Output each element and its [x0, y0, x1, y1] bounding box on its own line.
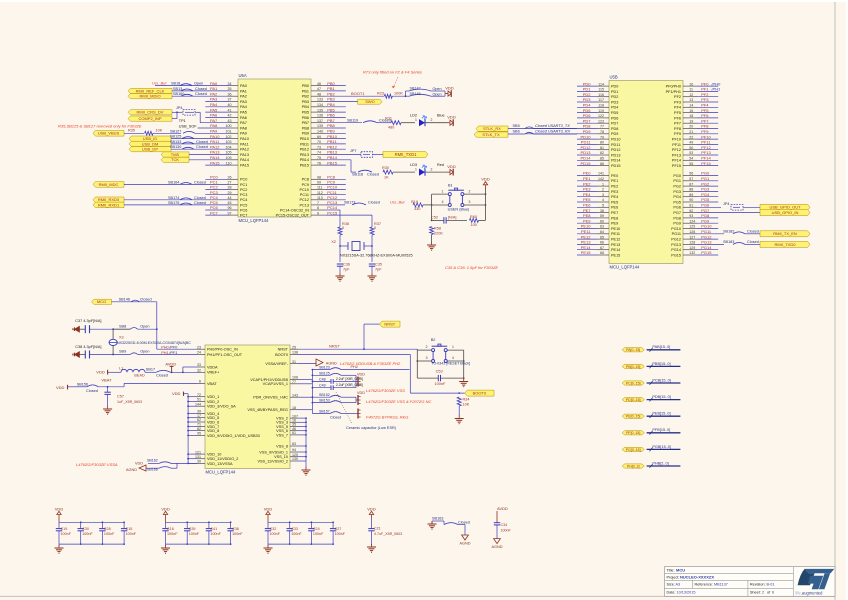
svg-text:USER (Blue): USER (Blue) — [448, 207, 470, 211]
svg-text:65: 65 — [600, 235, 604, 239]
svg-text:100nF: 100nF — [167, 532, 178, 536]
svg-text:VDD: VDD — [481, 177, 490, 182]
svg-text:82: 82 — [197, 427, 201, 431]
svg-text:VBAT: VBAT — [207, 382, 217, 386]
svg-text:88: 88 — [689, 188, 693, 192]
svg-text:15: 15 — [689, 109, 693, 113]
svg-text:18: 18 — [292, 406, 296, 410]
svg-text:PB8: PB8 — [302, 126, 309, 130]
svg-text:L476ZG VDDUSB & F303ZE PH2: L476ZG VDDUSB & F303ZE PH2 — [340, 361, 401, 366]
svg-text:SWO: SWO — [365, 99, 375, 104]
svg-text:109: 109 — [226, 156, 232, 160]
svg-text:PG1: PG1 — [673, 179, 681, 183]
svg-text:131: 131 — [195, 455, 201, 459]
svg-text:VDD: VDD — [96, 370, 105, 375]
svg-text:Date:: Date: — [667, 591, 676, 595]
svg-text:68: 68 — [600, 251, 604, 255]
svg-text:119: 119 — [598, 109, 604, 113]
svg-text:PG15: PG15 — [701, 250, 712, 255]
svg-text:81: 81 — [600, 146, 604, 150]
svg-text:141: 141 — [598, 172, 604, 176]
svg-text:VSS_4B/BYPASS_REG: VSS_4B/BYPASS_REG — [247, 408, 288, 412]
svg-text:85: 85 — [600, 157, 604, 161]
svg-text:1: 1 — [415, 118, 417, 122]
svg-text:PC2: PC2 — [240, 188, 247, 192]
svg-text:100nF: 100nF — [313, 532, 324, 536]
svg-text:124: 124 — [689, 219, 695, 223]
svg-text:SB175: SB175 — [168, 201, 179, 205]
svg-text:PF11: PF11 — [672, 143, 681, 147]
svg-text:3: 3 — [426, 356, 428, 360]
svg-text:PC11: PC11 — [300, 193, 309, 197]
svg-text:BOOT1: BOOT1 — [351, 91, 365, 96]
svg-text:PA10: PA10 — [210, 134, 220, 139]
svg-text:PG8: PG8 — [673, 216, 681, 220]
svg-text:PF[0..15]: PF[0..15] — [626, 431, 640, 435]
svg-text:PF15: PF15 — [672, 164, 681, 168]
svg-text:C38: C38 — [232, 527, 239, 531]
svg-text:PE5: PE5 — [583, 197, 591, 202]
svg-text:PF14: PF14 — [672, 159, 681, 163]
svg-text:PG4: PG4 — [701, 192, 710, 197]
svg-text:49: 49 — [689, 141, 693, 145]
svg-text:78: 78 — [600, 130, 604, 134]
svg-text:54: 54 — [689, 157, 693, 161]
svg-text:138: 138 — [292, 351, 298, 355]
svg-text:PG8: PG8 — [701, 213, 710, 218]
svg-text:100nF: 100nF — [335, 532, 346, 536]
svg-text:STLK_TX: STLK_TX — [482, 132, 500, 137]
svg-text:50: 50 — [689, 146, 693, 150]
svg-text:80: 80 — [600, 141, 604, 145]
svg-text:79: 79 — [600, 135, 604, 139]
svg-text:PB2: PB2 — [302, 95, 309, 99]
svg-text:SB182: SB182 — [723, 229, 734, 233]
svg-text:135: 135 — [317, 108, 323, 112]
svg-text:B2: B2 — [431, 338, 436, 342]
svg-text:Open: Open — [433, 87, 442, 91]
svg-text:111: 111 — [317, 186, 322, 190]
svg-text:PG5: PG5 — [701, 197, 710, 202]
svg-text:PG10: PG10 — [671, 227, 681, 231]
svg-text:PB0: PB0 — [327, 81, 335, 86]
svg-text:PC9: PC9 — [302, 183, 309, 187]
svg-text:64: 64 — [600, 230, 604, 234]
svg-text:PA11: PA11 — [210, 139, 220, 144]
svg-text:93: 93 — [689, 214, 693, 218]
svg-text:PB4: PB4 — [302, 105, 309, 109]
svg-text:VSS_9/VSSIO_1: VSS_9/VSSIO_1 — [259, 450, 288, 454]
svg-text:Usr_But: Usr_But — [152, 81, 167, 86]
svg-text:60: 60 — [600, 219, 604, 223]
svg-text:PF5: PF5 — [674, 111, 681, 115]
svg-text:4: 4 — [442, 200, 444, 204]
svg-text:PD1: PD1 — [611, 90, 618, 94]
svg-text:70: 70 — [317, 140, 321, 144]
svg-text:PD5: PD5 — [583, 108, 592, 113]
svg-text:129: 129 — [689, 246, 695, 250]
svg-text:PA7: PA7 — [240, 121, 247, 125]
svg-text:PE1: PE1 — [583, 176, 591, 181]
svg-text:F407ZG BYPASS_REG: F407ZG BYPASS_REG — [366, 415, 408, 420]
svg-text:R31: R31 — [385, 117, 392, 121]
svg-text:VSS_11/VSSIO_2: VSS_11/VSSIO_2 — [257, 459, 288, 463]
svg-text:PD6: PD6 — [611, 116, 618, 120]
svg-text:PD15: PD15 — [611, 164, 621, 168]
svg-text:128: 128 — [689, 241, 695, 245]
svg-text:PA12: PA12 — [210, 144, 220, 149]
svg-text:SB118: SB118 — [352, 173, 363, 177]
svg-text:86: 86 — [600, 162, 604, 166]
svg-text:136: 136 — [317, 114, 323, 118]
svg-text:92: 92 — [689, 209, 693, 213]
svg-text:U5A: U5A — [239, 73, 247, 78]
svg-text:PD8: PD8 — [611, 127, 618, 131]
svg-text:RMII_MDC: RMII_MDC — [99, 182, 119, 187]
svg-text:PA11: PA11 — [240, 142, 249, 146]
svg-text:SB145: SB145 — [410, 92, 421, 96]
svg-text:115: 115 — [598, 88, 604, 92]
svg-text:28: 28 — [228, 186, 232, 190]
svg-text:PF4: PF4 — [701, 103, 709, 108]
svg-text:L476ZG/F303ZE VSS & F207ZG NC: L476ZG/F303ZE VSS & F207ZG NC — [366, 399, 431, 404]
svg-text:33: 33 — [197, 363, 201, 367]
svg-text:VREF+: VREF+ — [207, 371, 220, 375]
svg-text:PA5: PA5 — [210, 107, 218, 112]
svg-text:PF11: PF11 — [701, 140, 711, 145]
svg-text:USB_VBUS: USB_VBUS — [98, 131, 120, 136]
svg-text:PG11: PG11 — [672, 232, 681, 236]
svg-text:PF2: PF2 — [701, 92, 709, 97]
svg-text:SB162: SB162 — [147, 459, 158, 463]
svg-text:C34: C34 — [501, 523, 508, 527]
svg-text:R35,SB125 & SB127 removed only: R35,SB125 & SB127 removed only for F303Z… — [58, 124, 142, 129]
svg-text:C32: C32 — [270, 527, 277, 531]
svg-text:100nF: 100nF — [232, 532, 243, 536]
svg-text:100nF: 100nF — [210, 532, 221, 536]
svg-text:PC0: PC0 — [240, 178, 247, 182]
svg-text:105: 105 — [226, 151, 232, 155]
svg-text:7pF: 7pF — [343, 267, 350, 271]
svg-text:NUCLEO-XXXXZX: NUCLEO-XXXXZX — [680, 574, 714, 579]
svg-text:Closed: Closed — [368, 201, 380, 205]
svg-text:7pF: 7pF — [375, 267, 382, 271]
svg-text:VSSA/VREF-: VSSA/VREF- — [265, 362, 288, 366]
svg-text:LD3: LD3 — [410, 163, 417, 167]
svg-text:PA10: PA10 — [240, 137, 249, 141]
svg-text:PA0: PA0 — [210, 81, 218, 86]
svg-text:67: 67 — [600, 246, 604, 250]
svg-text:PB3: PB3 — [327, 97, 335, 102]
svg-text:56: 56 — [689, 172, 693, 176]
svg-text:VDD_1: VDD_1 — [207, 395, 219, 399]
svg-text:110: 110 — [226, 161, 232, 165]
svg-text:PF7: PF7 — [701, 118, 709, 123]
svg-text:4: 4 — [602, 198, 604, 202]
svg-text:PC3: PC3 — [240, 193, 247, 197]
svg-text:VSS_8: VSS_8 — [276, 444, 288, 448]
svg-text:Title:: Title: — [667, 568, 675, 572]
svg-text:VDD: VDD — [357, 372, 365, 376]
svg-text:101: 101 — [226, 130, 232, 134]
svg-text:PD14: PD14 — [580, 156, 591, 161]
svg-text:MCO: MCO — [97, 299, 106, 304]
svg-text:PG15: PG15 — [671, 253, 681, 257]
svg-text:PG7: PG7 — [673, 211, 681, 215]
svg-text:7: 7 — [317, 201, 319, 205]
svg-text:PA14: PA14 — [240, 158, 249, 162]
svg-text:5: 5 — [602, 204, 604, 208]
svg-text:PG9: PG9 — [701, 218, 710, 223]
svg-text:12: 12 — [689, 93, 693, 97]
svg-text:Open: Open — [433, 92, 442, 96]
svg-text:Closed: Closed — [194, 201, 206, 205]
svg-text:VDD: VDD — [445, 86, 454, 91]
svg-text:PC6: PC6 — [240, 208, 247, 212]
svg-text:R58: R58 — [434, 227, 441, 231]
svg-text:3: 3 — [602, 193, 604, 197]
svg-text:Sheet:: Sheet: — [750, 591, 761, 595]
svg-text:MCU_LQFP144: MCU_LQFP144 — [206, 470, 236, 475]
svg-text:PE15: PE15 — [611, 253, 620, 257]
svg-text:PGB[15..0]: PGB[15..0] — [652, 445, 671, 449]
svg-text:PA13: PA13 — [240, 153, 249, 157]
svg-text:PB14: PB14 — [327, 155, 338, 160]
svg-text:X3: X3 — [119, 336, 124, 340]
svg-text:75: 75 — [317, 156, 321, 160]
svg-text:46: 46 — [317, 82, 321, 86]
svg-text:PF10: PF10 — [672, 138, 681, 142]
svg-text:Closed USART3_TX: Closed USART3_TX — [535, 124, 570, 128]
svg-text:Closed: Closed — [330, 416, 341, 420]
svg-text:98: 98 — [317, 176, 321, 180]
svg-text:PD11: PD11 — [611, 143, 620, 147]
svg-text:SB8: SB8 — [119, 324, 126, 328]
svg-text:10K: 10K — [463, 402, 470, 406]
svg-text:143: 143 — [292, 393, 298, 397]
svg-text:PD6: PD6 — [583, 113, 592, 118]
svg-text:32: 32 — [197, 369, 201, 373]
svg-text:C41: C41 — [210, 527, 217, 531]
svg-text:73: 73 — [317, 145, 321, 149]
svg-text:PD3: PD3 — [583, 97, 592, 102]
svg-text:PF8: PF8 — [674, 127, 681, 131]
svg-text:C38 4.3pF[N/A]: C38 4.3pF[N/A] — [75, 345, 101, 349]
svg-text:PE14: PE14 — [581, 245, 592, 250]
svg-text:1: 1 — [452, 345, 454, 349]
svg-text:104: 104 — [226, 145, 232, 149]
svg-text:VDD: VDD — [447, 115, 456, 120]
svg-text:PG0: PG0 — [701, 171, 710, 176]
svg-text:PA15: PA15 — [210, 160, 220, 165]
svg-text:PB7: PB7 — [327, 118, 335, 123]
svg-text:132: 132 — [689, 251, 695, 255]
svg-text:RMII_TXD0: RMII_TXD0 — [775, 242, 797, 247]
svg-text:PB14: PB14 — [300, 158, 309, 162]
svg-text:44: 44 — [228, 196, 232, 200]
svg-text:1K: 1K — [384, 176, 389, 180]
svg-text:RMII_TX_EN: RMII_TX_EN — [773, 231, 797, 236]
svg-text:PF14: PF14 — [701, 156, 711, 161]
svg-text:USB_ID: USB_ID — [143, 136, 158, 141]
svg-text:6: 6 — [199, 380, 201, 384]
svg-text:PE2: PE2 — [583, 181, 591, 186]
svg-text:C28: C28 — [104, 527, 111, 531]
svg-text:PD13: PD13 — [611, 153, 621, 157]
svg-text:VDD: VDD — [55, 506, 64, 511]
svg-text:PD0: PD0 — [583, 81, 592, 86]
svg-text:SB17: SB17 — [146, 368, 155, 372]
svg-text:PE10: PE10 — [611, 227, 620, 231]
svg-text:PD5: PD5 — [611, 111, 618, 115]
svg-text:AGND: AGND — [492, 545, 503, 549]
svg-text:PG[0..15]: PG[0..15] — [626, 448, 641, 452]
svg-text:89: 89 — [689, 193, 693, 197]
svg-text:PB3: PB3 — [302, 100, 309, 104]
svg-text:PA5: PA5 — [240, 111, 247, 115]
svg-text:SB142: SB142 — [410, 87, 421, 91]
svg-text:Revision:: Revision: — [750, 583, 766, 587]
svg-text:PB15: PB15 — [300, 164, 309, 168]
svg-text:139: 139 — [317, 124, 323, 128]
svg-text:PB5: PB5 — [327, 107, 335, 112]
svg-text:PD10: PD10 — [611, 138, 621, 142]
svg-text:PG2: PG2 — [701, 181, 710, 186]
svg-text:PHB[2..0]: PHB[2..0] — [652, 461, 668, 465]
svg-text:/PH0: /PH0 — [710, 81, 721, 86]
svg-text:C16: C16 — [167, 527, 174, 531]
svg-text:PB10: PB10 — [300, 137, 309, 141]
svg-text:PB7: PB7 — [302, 121, 309, 125]
svg-text:PH1: PH1 — [161, 351, 168, 355]
svg-text:LD2: LD2 — [410, 114, 417, 118]
svg-text:PG3: PG3 — [673, 190, 681, 194]
svg-text:PD9: PD9 — [611, 132, 618, 136]
svg-text:SB153: SB153 — [319, 399, 330, 403]
svg-text:AGND: AGND — [460, 541, 471, 545]
svg-text:22: 22 — [689, 135, 693, 139]
svg-text:PB10: PB10 — [327, 134, 338, 139]
svg-text:62: 62 — [197, 418, 201, 422]
svg-text:PB2: PB2 — [327, 91, 335, 96]
svg-text:PD1: PD1 — [583, 87, 592, 92]
svg-text:77: 77 — [292, 380, 296, 384]
svg-text:100K: 100K — [394, 92, 403, 96]
svg-text:PA4: PA4 — [240, 105, 247, 109]
svg-text:R23: R23 — [377, 92, 384, 96]
svg-text:PG12: PG12 — [671, 238, 681, 242]
svg-text:Closed: Closed — [195, 87, 207, 91]
svg-text:PE[0..15]: PE[0..15] — [626, 415, 640, 419]
svg-text:82: 82 — [600, 151, 604, 155]
svg-text:SB127: SB127 — [170, 129, 181, 133]
svg-text:PC5: PC5 — [240, 203, 247, 207]
svg-text:SB130: SB130 — [170, 145, 181, 149]
svg-text:PG7: PG7 — [701, 208, 710, 213]
svg-text:B-01: B-01 — [767, 583, 775, 587]
svg-text:AVDD: AVDD — [165, 361, 176, 366]
svg-text:PE0: PE0 — [583, 171, 591, 176]
svg-text:PE11: PE11 — [581, 229, 591, 234]
svg-text:VDD_8: VDD_8 — [207, 429, 219, 433]
svg-text:SB13: SB13 — [173, 87, 182, 91]
svg-text:Closed: Closed — [194, 196, 206, 200]
svg-text:VCAP1/PH1/VDDUSB: VCAP1/PH1/VDDUSB — [250, 378, 288, 382]
svg-text:C37 4.3pF[N/A]: C37 4.3pF[N/A] — [75, 319, 101, 323]
svg-text:72: 72 — [197, 393, 201, 397]
svg-text:NX3225GD-8.00M-EXS00A-CG04874[: NX3225GD-8.00M-EXS00A-CG04874[N/A]BC — [117, 341, 191, 345]
svg-text:PB12: PB12 — [327, 144, 338, 149]
svg-text:.augmented: .augmented — [801, 591, 823, 596]
svg-text:10K: 10K — [156, 129, 163, 133]
svg-text:PAB[15..0]: PAB[15..0] — [652, 345, 670, 349]
svg-text:Closed: Closed — [458, 520, 470, 524]
svg-text:3: 3 — [469, 200, 471, 204]
svg-text:2: 2 — [762, 591, 764, 595]
svg-text:Open: Open — [140, 350, 149, 354]
svg-text:114: 114 — [598, 82, 604, 86]
svg-text:103: 103 — [226, 140, 232, 144]
svg-text:L476ZG/F303ZE VSSA: L476ZG/F303ZE VSSA — [76, 462, 118, 467]
svg-text:Ceramic capacitor (Low ESR): Ceramic capacitor (Low ESR) — [346, 426, 397, 430]
svg-text:PE9: PE9 — [583, 218, 591, 223]
svg-text:PD11: PD11 — [581, 140, 591, 145]
svg-text:PE7: PE7 — [583, 208, 591, 213]
svg-text:PF10: PF10 — [701, 134, 711, 139]
svg-text:JP4: JP4 — [176, 106, 183, 110]
svg-text:PG11: PG11 — [701, 229, 712, 234]
svg-text:R30: R30 — [382, 166, 389, 170]
svg-text:PD3: PD3 — [611, 100, 618, 104]
svg-text:PE9: PE9 — [611, 222, 618, 226]
svg-text:0: 0 — [374, 226, 376, 230]
svg-text:106: 106 — [292, 376, 298, 380]
svg-text:PD[0..15]: PD[0..15] — [626, 398, 641, 402]
svg-text:BOOT0: BOOT0 — [473, 391, 487, 396]
svg-text:PF12: PF12 — [672, 148, 681, 152]
svg-text:PD2: PD2 — [611, 95, 618, 99]
svg-text:2.2uF [X5R_0805]: 2.2uF [X5R_0805] — [336, 377, 363, 381]
svg-text:13: 13 — [689, 98, 693, 102]
svg-text:VDD: VDD — [367, 506, 376, 511]
svg-text:61: 61 — [292, 431, 296, 435]
svg-text:[N/A]: [N/A] — [448, 216, 456, 220]
svg-text:31: 31 — [292, 360, 296, 364]
svg-text:SB152: SB152 — [319, 393, 330, 397]
svg-text:SB163: SB163 — [432, 516, 443, 520]
svg-text:100nF: 100nF — [501, 528, 512, 532]
svg-text:2: 2 — [602, 188, 604, 192]
svg-text:RMII_TXD1: RMII_TXD1 — [395, 152, 418, 157]
svg-text:Closed: Closed — [86, 389, 98, 393]
svg-text:PE0: PE0 — [611, 174, 618, 178]
svg-text:PA8: PA8 — [210, 123, 218, 128]
svg-text:122: 122 — [598, 114, 604, 118]
svg-text:PA6: PA6 — [240, 116, 247, 120]
svg-text:PH1/PF1-OSC_OUT: PH1/PF1-OSC_OUT — [207, 353, 243, 357]
svg-text:Closed: Closed — [367, 173, 379, 177]
svg-text:PB9: PB9 — [327, 129, 335, 134]
svg-text:47: 47 — [317, 87, 321, 91]
svg-text:PE13: PE13 — [611, 243, 620, 247]
svg-text:PF12: PF12 — [701, 145, 711, 150]
svg-text:PD9: PD9 — [583, 129, 592, 134]
svg-text:140: 140 — [317, 130, 323, 134]
svg-text:PA9: PA9 — [240, 132, 247, 136]
svg-text:SB146: SB146 — [119, 297, 130, 301]
svg-text:C35 & C36: 1.5pF for F303ZE: C35 & C36: 1.5pF for F303ZE — [445, 265, 498, 270]
svg-text:1: 1 — [442, 189, 444, 193]
